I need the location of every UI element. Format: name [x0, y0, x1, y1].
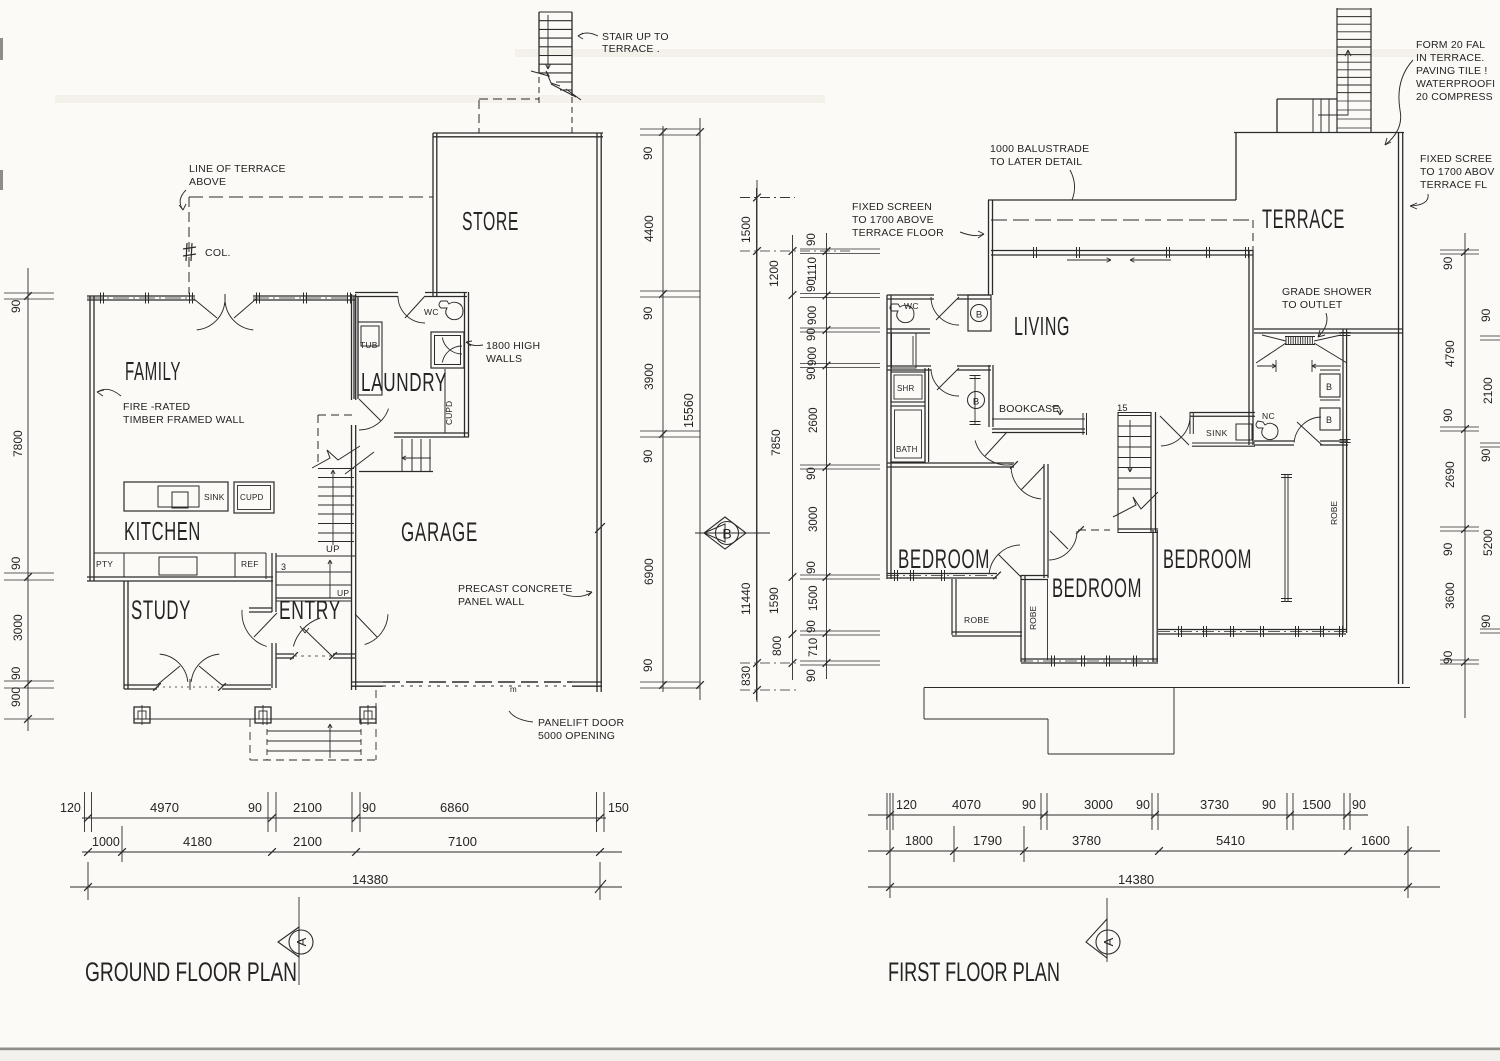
svg-text:90: 90: [9, 556, 23, 570]
bedroom2 hall wall: [1043, 464, 1045, 578]
bookcase: [992, 418, 1085, 420]
svg-text:90: 90: [1479, 448, 1493, 462]
shr bath west strip wall: [887, 365, 931, 367]
svg-text:TERRACE FLOOR: TERRACE FLOOR: [852, 227, 944, 239]
ensuite east wall: [1342, 329, 1344, 445]
svg-text:GRADE SHOWER: GRADE SHOWER: [1282, 286, 1372, 298]
porch dashed outline: [249, 719, 251, 760]
svg-text:LIVING: LIVING: [1014, 311, 1070, 341]
svg-text:90: 90: [806, 669, 818, 682]
svg-text:TO 1700 ABOVE: TO 1700 ABOVE: [852, 214, 934, 226]
section marker A first floor: [1106, 898, 1108, 962]
svg-text:GARAGE: GARAGE: [401, 517, 478, 547]
door entry to garage side: [355, 614, 377, 637]
robe strip bedroom2: [1047, 580, 1049, 660]
sink bench first floor: [1190, 412, 1255, 414]
svg-text:90: 90: [1441, 256, 1455, 270]
svg-text:90: 90: [1136, 798, 1150, 812]
dashed door opening under stair: [1078, 529, 1110, 531]
svg-text:TERRACE: TERRACE: [1262, 204, 1345, 234]
svg-text:3000: 3000: [1084, 797, 1113, 812]
stair first floor: [1117, 412, 1119, 533]
first floor left dim line C: [826, 233, 828, 679]
svg-text:SHR: SHR: [897, 384, 915, 393]
svg-text:90: 90: [641, 658, 655, 672]
ensuite opening arrows: [1257, 365, 1276, 367]
french door family north: [194, 299, 256, 318]
study west wall: [123, 581, 125, 689]
svg-text:1600: 1600: [1361, 833, 1390, 848]
svg-text:FORM 20 FAL: FORM 20 FAL: [1416, 39, 1485, 51]
svg-text:PAVING TILE !: PAVING TILE !: [1416, 65, 1487, 77]
door entry to study: [254, 613, 277, 637]
svg-text:B: B: [722, 526, 731, 542]
svg-text:3780: 3780: [1072, 833, 1101, 848]
shower 1800 walls: [431, 332, 464, 368]
svg-text:4970: 4970: [150, 800, 179, 815]
tub: [358, 322, 382, 395]
entry south wall and front door: [276, 653, 294, 655]
svg-text:WC: WC: [424, 307, 439, 317]
svg-text:90: 90: [806, 367, 818, 380]
laundry east wall: [464, 292, 466, 437]
svg-text:SINK: SINK: [1206, 428, 1228, 438]
svg-text:90: 90: [1441, 408, 1455, 422]
west wall family kitchen: [89, 296, 91, 581]
study south wall with french doors: [124, 684, 157, 686]
wc block first floor north wall: [887, 294, 934, 296]
svg-text:900: 900: [9, 687, 23, 707]
french doors study: [157, 666, 222, 685]
svg-text:90: 90: [1441, 650, 1455, 664]
scan artifact left edge specks: [0, 38, 3, 60]
svg-text:2100: 2100: [293, 800, 322, 815]
svg-text:B: B: [1326, 415, 1332, 425]
smoke detector B1 box: [968, 295, 991, 331]
svg-text:90: 90: [641, 146, 655, 160]
door at stair head: [1160, 416, 1189, 445]
svg-text:3900: 3900: [642, 363, 656, 390]
svg-text:ROBE: ROBE: [1028, 606, 1038, 630]
bath strip east wall: [924, 368, 926, 462]
svg-text:90: 90: [641, 449, 655, 463]
svg-text:900: 900: [807, 306, 819, 325]
svg-text:TIMBER FRAMED WALL: TIMBER FRAMED WALL: [123, 414, 245, 426]
svg-text:90: 90: [806, 561, 818, 574]
svg-text:5410: 5410: [1216, 833, 1245, 848]
svg-text:800: 800: [770, 636, 784, 656]
bath tub: [891, 406, 925, 462]
kitchen island bench: [124, 482, 228, 511]
svg-text:FIRE -RATED: FIRE -RATED: [123, 401, 191, 413]
door living to wc lobby: [936, 297, 959, 320]
svg-text:PANELIFT DOOR: PANELIFT DOOR: [538, 717, 624, 729]
svg-text:3: 3: [281, 562, 286, 572]
svg-text:6860: 6860: [440, 800, 469, 815]
laundry cupboard: [444, 369, 446, 433]
svg-text:90: 90: [806, 620, 818, 633]
scan artifact band top: [55, 95, 825, 103]
wc toilet: [439, 301, 463, 320]
svg-text:TO 1700 ABOV: TO 1700 ABOV: [1420, 166, 1495, 178]
svg-text:LINE OF TERRACE: LINE OF TERRACE: [189, 163, 286, 175]
ground outline below first floor: [924, 687, 1410, 689]
external stair arrow: [1318, 50, 1348, 115]
svg-text:3730: 3730: [1200, 797, 1229, 812]
svg-text:90: 90: [641, 306, 655, 320]
svg-text:TERRACE .: TERRACE .: [602, 43, 660, 55]
section marker B: [695, 532, 770, 534]
panelift door dashed: [383, 681, 572, 683]
laundry north wall with windows: [253, 295, 355, 297]
svg-text:3000: 3000: [11, 614, 25, 641]
kitchen south wall: [87, 576, 273, 578]
svg-text:2600: 2600: [808, 407, 820, 433]
svg-text:ABOVE: ABOVE: [189, 176, 226, 188]
svg-text:3600: 3600: [1443, 582, 1457, 609]
dashed balustrade line: [991, 219, 1253, 221]
svg-text:STAIR UP TO: STAIR UP TO: [602, 31, 669, 43]
svg-text:90: 90: [9, 666, 23, 680]
entry steps: [276, 555, 355, 557]
svg-text:6900: 6900: [642, 558, 656, 585]
bottom scan edge line: [0, 1048, 1500, 1051]
door below bookcase: [985, 432, 1007, 456]
first floor left dim line B: [792, 235, 794, 680]
svg-text:COL.: COL.: [205, 247, 231, 259]
door to wc: [405, 296, 425, 318]
laundry west wall: [353, 296, 355, 399]
svg-text:4400: 4400: [642, 215, 656, 242]
svg-text:NC: NC: [1262, 411, 1275, 421]
svg-text:90: 90: [9, 299, 23, 313]
svg-text:7800: 7800: [11, 430, 25, 457]
bottom dimensions first floor row1: [868, 814, 1368, 816]
svg-text:1790: 1790: [973, 833, 1002, 848]
svg-text:STUDY: STUDY: [131, 595, 191, 625]
svg-text:120: 120: [896, 798, 917, 812]
svg-text:FIXED SCREEN: FIXED SCREEN: [852, 201, 932, 213]
wc toilet first floor: [890, 304, 914, 323]
svg-text:90: 90: [806, 328, 818, 341]
right dimension line 2 ground floor 15560: [699, 118, 701, 700]
svg-text:ROBE: ROBE: [964, 615, 989, 625]
first floor external stair lower flight: [1312, 99, 1314, 132]
svg-text:WATERPROOFI: WATERPROOFI: [1416, 78, 1495, 90]
section line B tick on store wall: [595, 523, 605, 533]
svg-text:FAMILY: FAMILY: [125, 356, 181, 386]
svg-text:90: 90: [806, 467, 818, 480]
living north glass wall: [991, 250, 1253, 252]
svg-text:PANEL WALL: PANEL WALL: [458, 596, 524, 608]
left dimension line ground floor: [27, 268, 29, 731]
svg-text:830: 830: [739, 666, 753, 686]
hall niche wall: [988, 365, 990, 427]
svg-text:BEDROOM: BEDROOM: [1163, 544, 1252, 574]
svg-text:7850: 7850: [769, 429, 783, 456]
smoke detector B2: [974, 375, 976, 425]
svg-text:90: 90: [1479, 614, 1493, 628]
ensuite south wall: [1254, 440, 1294, 442]
column marker COL: [183, 247, 196, 249]
first floor external stair upper flight: [1336, 8, 1338, 132]
svg-text:IN TERRACE.: IN TERRACE.: [1416, 52, 1485, 64]
study east wall and closet stub: [249, 607, 272, 609]
svg-text:4180: 4180: [183, 834, 212, 849]
svg-text:14380: 14380: [1118, 872, 1154, 887]
svg-text:90: 90: [1022, 798, 1036, 812]
svg-text:900: 900: [807, 347, 819, 366]
svg-text:SINK: SINK: [204, 492, 225, 502]
svg-text:BOOKCASE: BOOKCASE: [999, 403, 1060, 415]
porch posts: [134, 707, 150, 723]
first floor terrace outline: [988, 199, 1236, 201]
svg-text:5000 OPENING: 5000 OPENING: [538, 730, 615, 742]
svg-text:B: B: [973, 397, 979, 408]
svg-text:7100: 7100: [448, 834, 477, 849]
svg-text:REF: REF: [241, 559, 259, 569]
svg-text:LAUNDRY: LAUNDRY: [361, 367, 447, 397]
svg-text:B: B: [1326, 382, 1332, 392]
bedroom2 south wall windows: [1021, 658, 1158, 660]
svg-text:UP: UP: [326, 544, 340, 555]
porch steps: [267, 730, 361, 732]
svg-text:11440: 11440: [739, 582, 753, 615]
svg-text:WALLS: WALLS: [486, 353, 522, 365]
svg-text:90: 90: [248, 801, 262, 815]
linen cupboard below wc: [892, 333, 917, 368]
laundry door to hall: [359, 399, 381, 421]
svg-text:GROUND FLOOR PLAN: GROUND FLOOR PLAN: [85, 957, 297, 987]
svg-text:PTY: PTY: [96, 559, 113, 569]
bedroom1 south wall windows: [887, 573, 997, 575]
svg-text:120: 120: [60, 801, 81, 815]
steps laundry to garage: [401, 439, 403, 471]
store walls: [433, 132, 603, 134]
svg-text:20 COMPRESS: 20 COMPRESS: [1416, 91, 1493, 103]
ensuite top wall: [1254, 328, 1403, 330]
bedroom2 east wall: [1152, 530, 1154, 662]
main stair ground floor: [318, 414, 355, 416]
svg-text:2690: 2690: [1443, 461, 1457, 488]
svg-text:90: 90: [1352, 798, 1366, 812]
svg-text:CUPD: CUPD: [240, 493, 263, 502]
robe south wall: [952, 631, 1022, 633]
bedroom3 south wall windows: [1158, 629, 1346, 631]
svg-text:1200: 1200: [767, 260, 781, 287]
living west wall: [988, 200, 990, 295]
svg-text:90: 90: [1479, 308, 1493, 322]
family north wall with windows: [87, 295, 195, 297]
svg-text:PRECAST CONCRETE: PRECAST CONCRETE: [458, 583, 572, 595]
svg-text:STORE: STORE: [462, 206, 519, 236]
svg-text:ROBE: ROBE: [1329, 501, 1339, 525]
dashed line of terrace above (ground): [189, 196, 433, 198]
svg-text:14380: 14380: [352, 872, 388, 887]
garage west wall: [351, 425, 353, 690]
terrace east wall: [1398, 132, 1400, 684]
bedroom1 robe wall: [951, 579, 953, 635]
bottom dimensions ground floor row1: [82, 817, 606, 819]
kitchen south bench row: [94, 552, 266, 554]
svg-text:KITCHEN: KITCHEN: [124, 516, 201, 546]
west wall first floor: [886, 295, 888, 579]
first floor right dim line: [1464, 233, 1466, 718]
svg-text:1000 BALUSTRADE: 1000 BALUSTRADE: [990, 143, 1089, 155]
svg-text:3000: 3000: [808, 506, 820, 532]
sliding door arrows living: [1067, 259, 1111, 261]
svg-text:TO LATER DETAIL: TO LATER DETAIL: [990, 156, 1082, 168]
kitchen cupd box: [234, 482, 274, 513]
svg-text:1500: 1500: [808, 585, 820, 611]
bottom dimensions first floor row3: [868, 886, 1440, 888]
garage south wall stubs: [352, 681, 383, 683]
svg-text:CUPD: CUPD: [444, 401, 454, 425]
svg-text:90: 90: [1441, 542, 1455, 556]
svg-text:B: B: [976, 310, 982, 321]
right dimension line 3 shared 1500 11440 830: [756, 180, 758, 702]
svg-text:15: 15: [1117, 403, 1128, 414]
svg-text:A: A: [1101, 937, 1116, 946]
bottom dimensions ground floor row2: [82, 851, 622, 853]
svg-text:15560: 15560: [682, 393, 696, 428]
svg-text:150: 150: [608, 801, 629, 815]
svg-text:1800 HIGH: 1800 HIGH: [486, 340, 540, 352]
svg-text:BEDROOM: BEDROOM: [898, 544, 990, 574]
door bedroom2 to robe area: [998, 554, 1021, 577]
svg-text:90: 90: [362, 801, 376, 815]
svg-text:2100: 2100: [1481, 377, 1495, 404]
section marker A ground floor: [298, 897, 300, 985]
svg-text:1800: 1800: [905, 834, 933, 848]
bottom dimensions ground floor row3: [70, 886, 622, 888]
first floor far right partial dims: [1480, 335, 1500, 337]
svg-text:2100: 2100: [293, 834, 322, 849]
svg-text:4070: 4070: [952, 797, 981, 812]
bedroom3 east wall: [1342, 445, 1344, 633]
svg-text:90: 90: [806, 279, 818, 292]
svg-text:710: 710: [808, 638, 820, 657]
right dimension line 1 ground floor: [662, 126, 664, 692]
bedroom1 north wall: [887, 462, 1014, 464]
ensuite b boxes: [1320, 374, 1340, 397]
svg-text:BATH: BATH: [896, 445, 918, 454]
svg-text:TUB: TUB: [360, 340, 378, 350]
svg-text:TERRACE FL: TERRACE FL: [1420, 179, 1487, 191]
svg-text:1000: 1000: [92, 835, 120, 849]
svg-text:5200: 5200: [1481, 529, 1495, 556]
wc first floor partition: [887, 328, 930, 330]
ground floor external stair to terrace: [538, 12, 540, 73]
svg-text:FIRST FLOOR PLAN: FIRST FLOOR PLAN: [888, 957, 1060, 987]
svg-text:ENTRY: ENTRY: [279, 595, 341, 625]
ensuite door: [1297, 422, 1322, 445]
svg-text:WC: WC: [904, 301, 919, 311]
door hall to bathroom: [937, 368, 959, 390]
bedroom2 west wall: [1020, 575, 1022, 662]
first floor left dim line A: [756, 188, 758, 700]
svg-text:1500: 1500: [739, 216, 753, 243]
ensuite shower: [1262, 335, 1286, 341]
svg-text:1590: 1590: [767, 587, 781, 614]
laundry south wall: [394, 432, 469, 434]
svg-text:A: A: [294, 937, 309, 946]
svg-text:90: 90: [1262, 798, 1276, 812]
bedroom3 robe partition: [1284, 474, 1286, 602]
svg-text:90: 90: [806, 233, 818, 246]
svg-text:4790: 4790: [1443, 340, 1457, 367]
door to bedroom2 upper: [1021, 466, 1044, 490]
porch edge line: [134, 718, 376, 720]
svg-text:1110: 1110: [807, 257, 819, 281]
svg-text:BEDROOM: BEDROOM: [1052, 573, 1142, 603]
svg-text:1500: 1500: [1302, 797, 1331, 812]
svg-text:m: m: [510, 685, 517, 694]
shower box shr: [891, 372, 925, 402]
svg-text:FIXED SCREE: FIXED SCREE: [1420, 153, 1492, 165]
bottom dimensions first floor row2: [868, 850, 1440, 852]
living east wall: [1248, 250, 1250, 445]
svg-text:TO OUTLET: TO OUTLET: [1282, 299, 1343, 311]
wc laundry top wall: [355, 292, 398, 294]
